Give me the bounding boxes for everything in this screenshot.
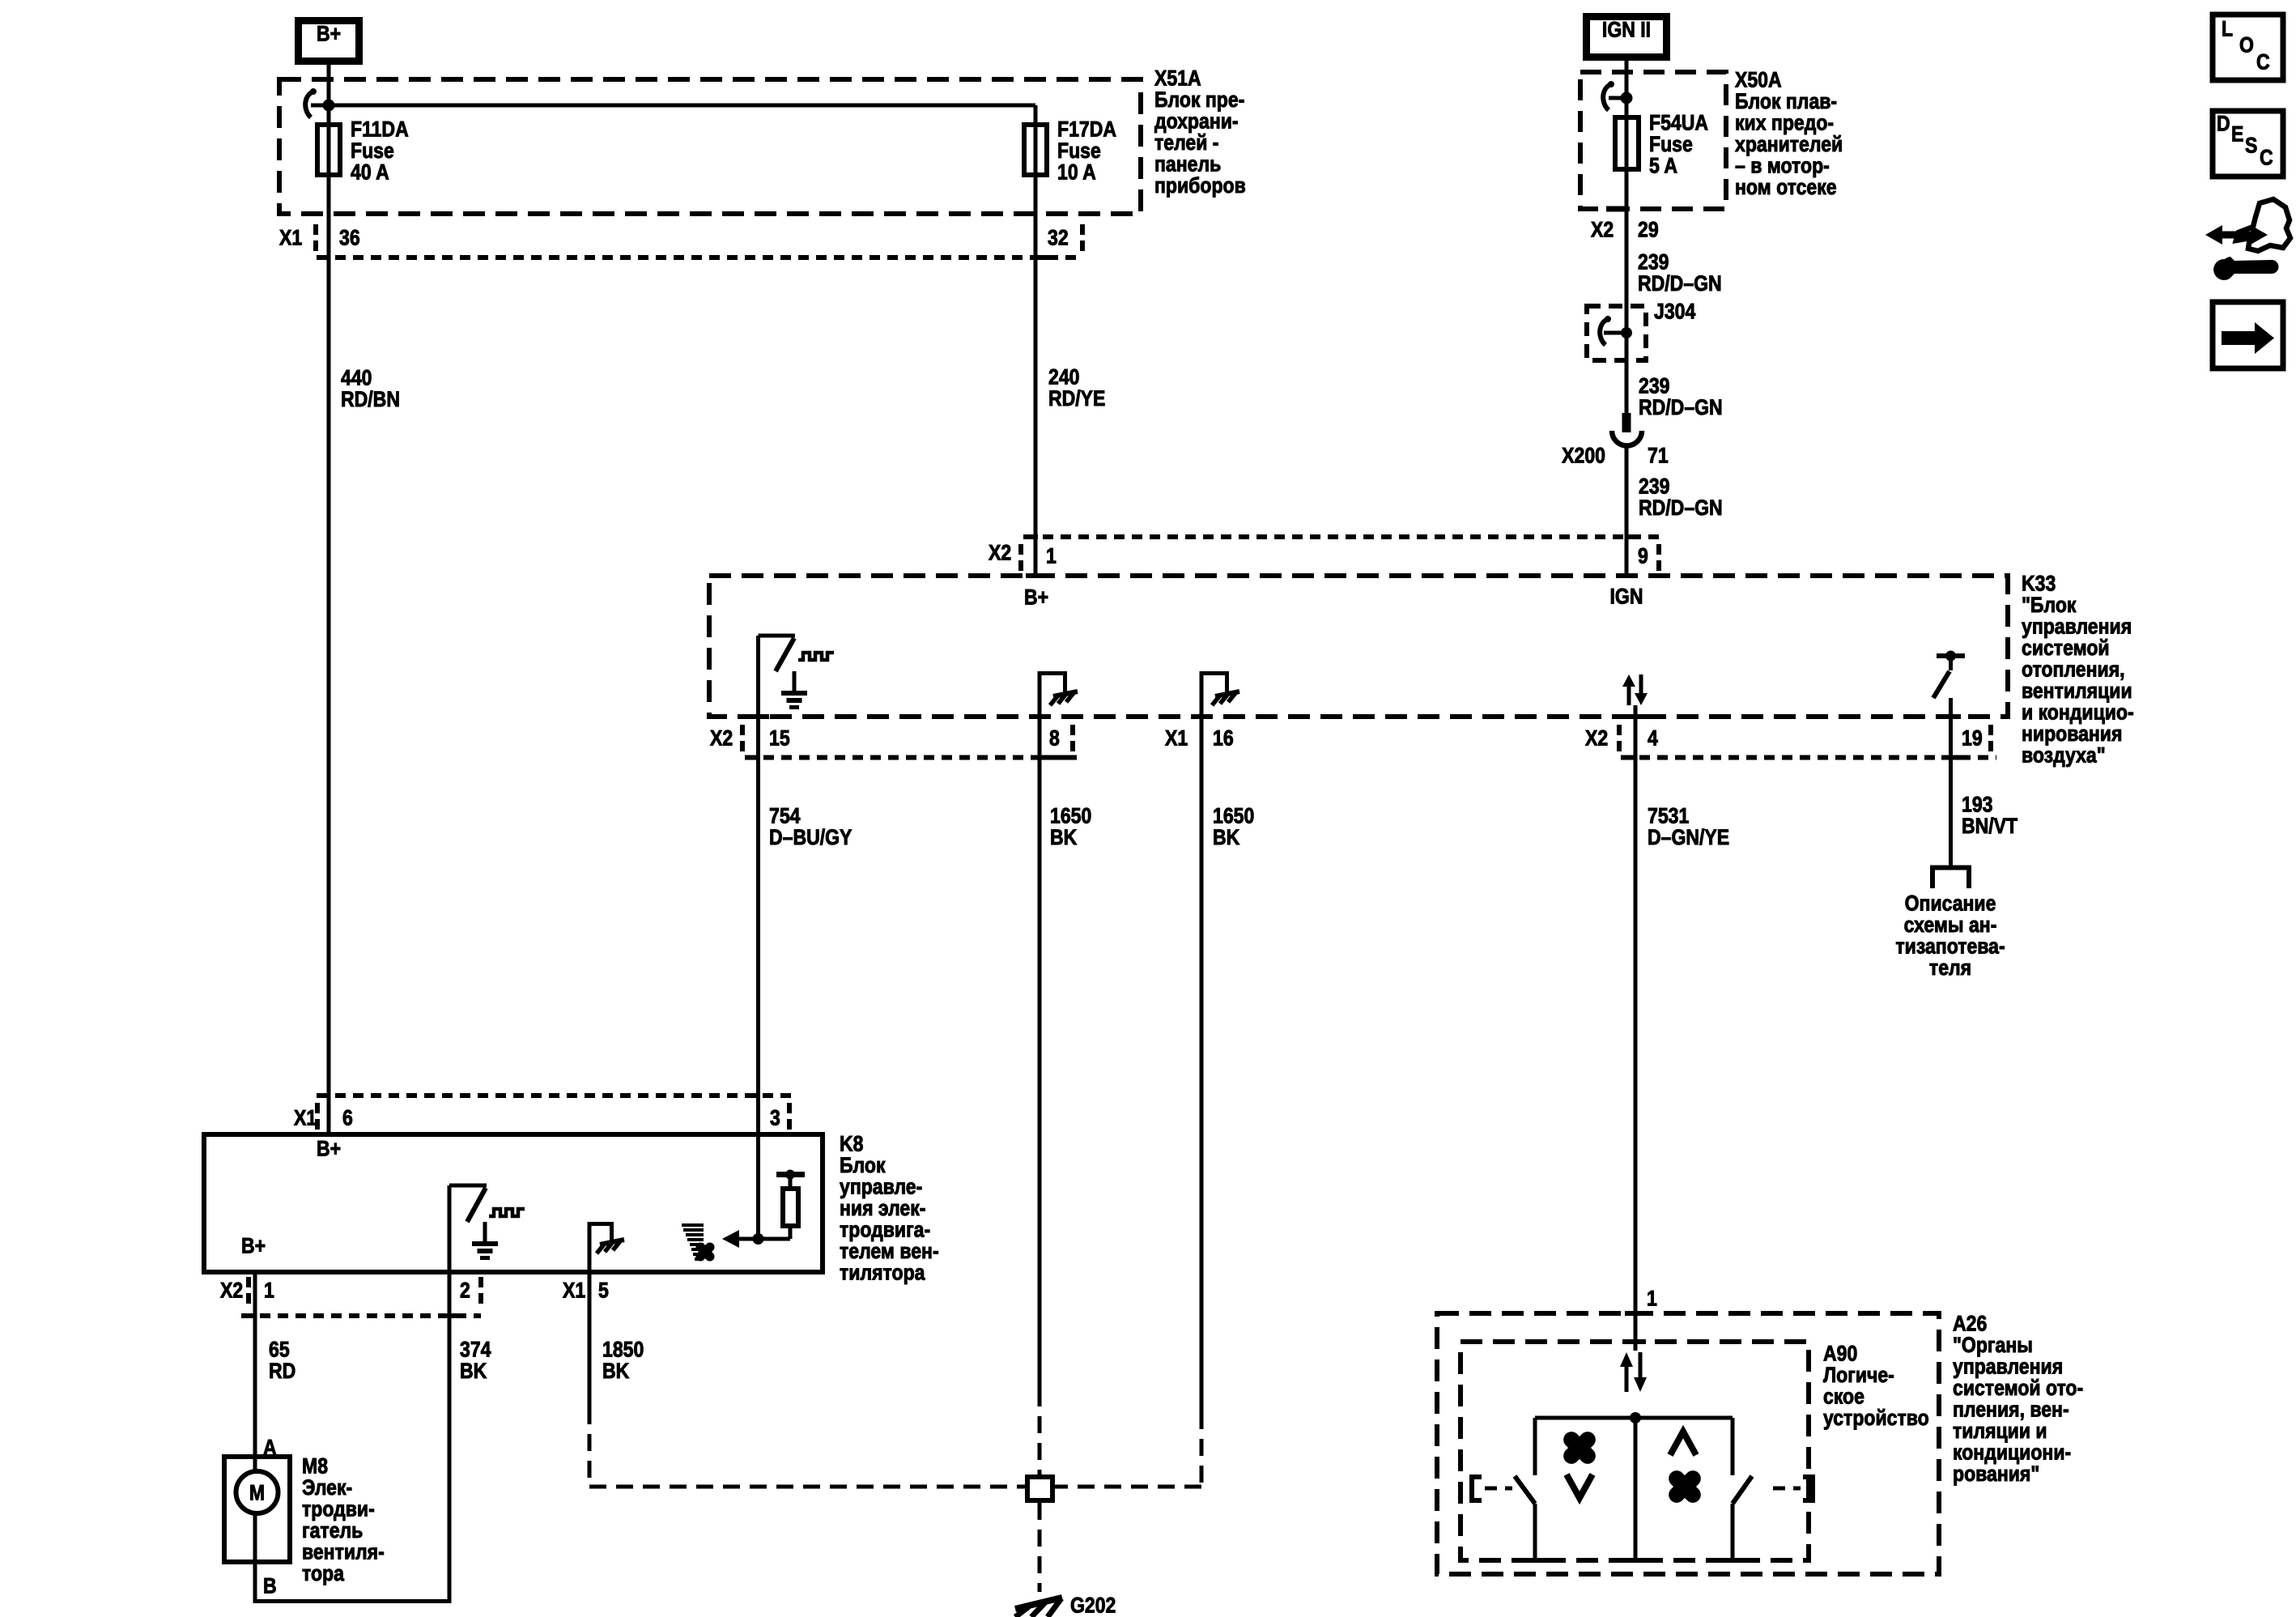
chassis ground symbol inside K8 [597, 1240, 624, 1253]
svg-text:IGN II: IGN II [1602, 18, 1651, 42]
svg-text:RD/YE: RD/YE [1048, 386, 1105, 411]
fuse block X50A dashed box [1580, 72, 1726, 209]
svg-text:M: M [249, 1481, 265, 1505]
wire label 193 BN/VT [1962, 793, 2018, 839]
dashed wire from pin 8 run to splice box [1038, 1389, 1042, 1474]
K33 internal switch for pin 19 [1933, 651, 1965, 699]
A90 data arrows [1620, 1352, 1647, 1392]
logic device A90 dashed box [1461, 1342, 1809, 1560]
wire 240 RD/YE from bus through F17DA down to K33 pin 1 [1034, 105, 1038, 573]
splice junction box [1027, 1477, 1052, 1500]
svg-text:15: 15 [769, 726, 790, 751]
A90 right fan icon [1677, 1479, 1693, 1495]
wire 1650 BK from K33 pin 16 (solid part) [1200, 717, 1204, 1412]
svg-text:19: 19 [1962, 726, 1983, 751]
svg-text:приборов: приборов [1154, 173, 1246, 198]
svg-text:BK: BK [1213, 825, 1239, 849]
fan control module K8 box [204, 1134, 823, 1272]
svg-text:тилятора: тилятора [840, 1261, 925, 1285]
svg-text:X1: X1 [563, 1279, 585, 1303]
splice J304 dashed box [1587, 300, 1695, 360]
chassis ground symbol pin 16 [1212, 691, 1239, 705]
splice symbol at X51A bus [305, 88, 317, 117]
svg-text:1: 1 [264, 1279, 274, 1303]
A26 label [1953, 1312, 2083, 1487]
fuse F17DA 10 A [1024, 117, 1116, 185]
A90 right branch wire [1731, 1418, 1735, 1563]
wire 440 RD/BN from B+ through F11DA down to K8 pin 6 [327, 65, 331, 1132]
wire label 1650 BK (pin 16) [1213, 804, 1254, 850]
svg-text:BK: BK [1050, 825, 1077, 849]
A90 left switch [1515, 1476, 1535, 1504]
K8 internal driver switch (pin 2) [449, 1185, 525, 1274]
inline connector X200 pin 71 [1562, 413, 1669, 468]
wire label 239 RD/D-GN (1) [1638, 250, 1722, 296]
svg-text:1: 1 [1647, 1287, 1657, 1311]
A90 left fan icon [1571, 1440, 1588, 1456]
fuse F54UA 5 A [1615, 111, 1708, 178]
svg-text:X200: X200 [1562, 444, 1605, 468]
wire 239 RD/D-GN below X200 to K33 pin 9 [1625, 446, 1629, 573]
bus wire inside X51A from F11DA to F17DA [311, 104, 1035, 108]
connector X2 pins 4 and 19 of K33 [1585, 725, 1996, 758]
connector pin 32 of X51A [1030, 224, 1085, 257]
power symbol B+ [299, 21, 359, 62]
junction dot at F11DA bus tap [323, 100, 335, 112]
pin A label of motor [263, 1436, 277, 1460]
junction dot on A90 bus [1630, 1412, 1641, 1423]
svg-text:40 A: 40 A [351, 160, 389, 185]
X51A label [1154, 66, 1246, 198]
svg-text:IGN: IGN [1610, 585, 1643, 609]
node B+ inside K33 [1024, 585, 1048, 610]
svg-text:B: B [263, 1574, 277, 1598]
wire 1850 BK from K8 pin 5 (solid part) [588, 1274, 592, 1407]
K33 data arrows above pin 4 [1622, 674, 1648, 705]
svg-text:D: D [2217, 112, 2230, 136]
wire label 374 BK [460, 1338, 491, 1384]
ground G202 [1015, 1594, 1116, 1617]
off-page reference symbol [1930, 868, 1971, 889]
svg-text:RD/D–GN: RD/D–GN [1639, 395, 1723, 419]
fuse F11DA 40 A [317, 117, 409, 185]
connector X1 pin 36 of X51A [279, 224, 1080, 257]
earth ground inside K33 (pin 15 driver) [781, 671, 807, 708]
diagnostic hand-wrench icon [2205, 199, 2290, 280]
svg-text:71: 71 [1648, 444, 1669, 468]
svg-text:X1: X1 [1165, 726, 1188, 751]
arrow icon box [2213, 302, 2283, 368]
connector X2 pins 1 and 2 of K8 [220, 1277, 483, 1316]
svg-text:J304: J304 [1654, 300, 1695, 324]
wire label 1650 BK (pin 8) [1050, 804, 1091, 850]
K33 internal ground path pin 8 [1038, 671, 1068, 719]
pin 1 label of A26 [1647, 1287, 1657, 1311]
svg-text:теля: теля [1929, 955, 1971, 980]
wire label 440 RD/BN [341, 366, 400, 412]
resistor inside K8 [776, 1170, 805, 1240]
svg-text:S: S [2245, 134, 2257, 158]
wire 1650 BK from K33 pin 8 (solid part) [1038, 717, 1042, 1389]
K33 internal ground path pin 16 [1200, 671, 1230, 719]
A90 right switch [1733, 1476, 1752, 1504]
stub wire at X50A tap [1609, 96, 1626, 100]
svg-text:D–BU/GY: D–BU/GY [769, 825, 852, 849]
svg-text:RD/D–GN: RD/D–GN [1638, 271, 1722, 296]
wire 7531 D-GN/YE from K33 pin 4 to A26 pin 1 [1634, 705, 1638, 1351]
svg-text:X2: X2 [220, 1279, 243, 1303]
wire 754 D-BU/GY from K33 pin 15 to K8 pin 3 [756, 636, 760, 1239]
node IGN inside K33 [1610, 585, 1643, 609]
HVAC control module K33 dashed box [709, 576, 2008, 717]
A90 left chevron down [1567, 1474, 1592, 1498]
svg-text:RD/D–GN: RD/D–GN [1639, 496, 1723, 520]
wire label 65 RD [269, 1338, 296, 1384]
arrow pointing to fan [722, 1230, 790, 1248]
svg-text:16: 16 [1213, 726, 1234, 751]
svg-text:36: 36 [339, 226, 360, 250]
svg-text:C: C [2256, 50, 2270, 74]
node B+ at K8 pin 1 [241, 1234, 266, 1258]
svg-text:E: E [2231, 122, 2243, 147]
connector X1 pin 5 of K8 [563, 1279, 609, 1303]
connector X1 pins 6 and 3 of K8 [294, 1096, 797, 1130]
K33 label [2022, 572, 2134, 768]
junction dot on K8 fan line [753, 1233, 764, 1245]
wire 1850 BK dashed continuation to splice [589, 1407, 1025, 1487]
svg-text:C: C [2260, 146, 2273, 170]
svg-text:RD/BN: RD/BN [341, 387, 400, 411]
connector X2 pin 29 of X50A [1591, 209, 1659, 242]
junction dot X50A [1621, 92, 1633, 104]
svg-text:X2: X2 [989, 541, 1011, 565]
svg-text:X2: X2 [710, 726, 733, 751]
A90 right chevron up [1670, 1432, 1696, 1455]
fuse block X51A dashed box [279, 79, 1141, 214]
svg-text:B+: B+ [317, 1137, 341, 1161]
node B+ at K8 pin 6 [317, 1137, 341, 1161]
splice symbol J304 [1600, 316, 1611, 345]
X50A label [1735, 68, 1843, 200]
svg-text:5 A: 5 A [1649, 154, 1677, 178]
svg-text:тора: тора [302, 1561, 345, 1585]
wire label 239 RD/D-GN (3) [1639, 474, 1723, 521]
svg-text:9: 9 [1638, 544, 1648, 568]
LOC icon box [2213, 15, 2283, 80]
svg-text:5: 5 [598, 1279, 609, 1303]
HVAC controls A26 dashed box [1437, 1313, 1939, 1574]
pin B label of motor [263, 1574, 277, 1598]
wire label 239 RD/D-GN (2) [1639, 374, 1723, 420]
wire label 1850 BK [602, 1338, 644, 1384]
svg-text:рования": рования" [1953, 1462, 2039, 1486]
svg-text:3: 3 [770, 1106, 780, 1130]
svg-text:29: 29 [1638, 218, 1659, 242]
earth ground inside K8 [472, 1222, 498, 1258]
chassis ground symbol pin 8 [1050, 691, 1078, 705]
off-page reference text [1895, 891, 2005, 981]
A90 right control bracket [1773, 1477, 1813, 1500]
A90 left branch wire [1533, 1418, 1537, 1563]
connector X1 pin 16 of K33 [1165, 726, 1234, 751]
svg-text:8: 8 [1049, 726, 1060, 751]
svg-text:32: 32 [1048, 226, 1069, 250]
DESC icon box [2213, 111, 2283, 177]
A90 left control bracket [1472, 1477, 1512, 1500]
svg-text:BN/VT: BN/VT [1962, 814, 2018, 838]
svg-text:10 A: 10 A [1057, 160, 1096, 185]
svg-text:B+: B+ [317, 22, 341, 46]
fan motor M8 [224, 1457, 290, 1562]
A90 center wire [1634, 1418, 1638, 1563]
wire label 7531 D-GN/YE [1648, 804, 1729, 850]
svg-text:1: 1 [1046, 544, 1057, 568]
svg-text:X2: X2 [1591, 218, 1614, 242]
svg-text:B+: B+ [241, 1234, 266, 1258]
junction dot J304 [1621, 327, 1632, 338]
svg-text:G202: G202 [1070, 1594, 1116, 1617]
wire label 754 D-BU/GY [769, 804, 852, 850]
connector X2 pins 15 and 8 of K33 [710, 725, 1077, 758]
svg-text:X2: X2 [1585, 726, 1608, 751]
wire 239 RD/D-GN from IGN II through F54UA to X200 [1625, 61, 1629, 415]
wire 374 BK from K8 pin 2 to motor M8 [255, 1274, 449, 1602]
svg-text:воздуха": воздуха" [2022, 743, 2106, 768]
svg-text:2: 2 [460, 1279, 470, 1303]
K33 internal driver switch for pin 15 [759, 636, 835, 671]
svg-text:BK: BK [460, 1359, 487, 1383]
wire 65 RD from K8 pin 1 to motor M8 [253, 1274, 257, 1472]
svg-text:L: L [2222, 17, 2233, 41]
svg-text:6: 6 [342, 1106, 353, 1130]
K8 internal ground path (pin 5) [588, 1222, 614, 1274]
svg-text:RD: RD [269, 1359, 296, 1383]
A90 label [1823, 1342, 1929, 1431]
svg-text:X1: X1 [294, 1106, 317, 1130]
svg-text:устройство: устройство [1823, 1406, 1929, 1430]
K8 fan load icon [682, 1225, 710, 1259]
dashed wire from pin 16 run to splice box [1055, 1412, 1201, 1487]
wire label 240 RD/YE [1048, 365, 1105, 411]
svg-text:4: 4 [1648, 726, 1658, 751]
svg-text:X1: X1 [279, 226, 302, 250]
wire 193 BN/VT from K33 pin 19 to off-page [1949, 698, 1953, 866]
svg-text:BK: BK [602, 1359, 629, 1383]
stub wire at J304 [1604, 331, 1626, 335]
svg-text:ном отсеке: ном отсеке [1735, 175, 1837, 199]
connector X2 pins 1 and 9 of K33 [989, 537, 1661, 571]
dashed wire from splice box to G202 [1038, 1503, 1042, 1592]
M8 label [302, 1454, 385, 1586]
svg-text:B+: B+ [1024, 585, 1048, 610]
power symbol IGN II [1587, 17, 1667, 57]
svg-text:D–GN/YE: D–GN/YE [1648, 825, 1729, 849]
splice symbol X50A [1603, 81, 1614, 110]
A90 internal bus [1535, 1416, 1733, 1420]
K8 label [840, 1132, 939, 1285]
svg-text:O: O [2239, 33, 2254, 57]
